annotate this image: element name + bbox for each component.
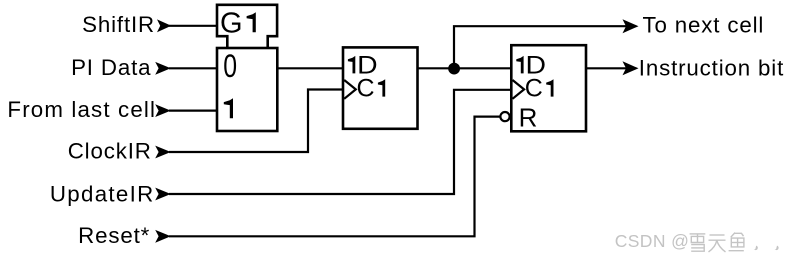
svg-text:From last cell: From last cell <box>7 97 156 122</box>
wire From last cell to mux input 1 <box>169 109 216 111</box>
label From last cell <box>7 97 156 122</box>
watermark glyph xue (snow) <box>690 234 706 251</box>
svg-text:R: R <box>519 102 538 132</box>
input arrow UpdateIR <box>155 188 171 201</box>
label PI Data <box>71 55 151 80</box>
wire ClockIR to FF1 clock C1 <box>169 90 342 153</box>
label To next cell <box>643 13 765 38</box>
svg-text:Instruction bit: Instruction bit <box>639 55 784 80</box>
label FF1 C1 <box>357 75 386 103</box>
input arrow Reset* <box>155 230 171 243</box>
flip-flop FF1 box <box>343 47 418 128</box>
svg-text:ClockIR: ClockIR <box>68 138 152 163</box>
svg-text:Reset*: Reset* <box>78 223 150 248</box>
svg-text:0: 0 <box>223 48 237 84</box>
label FF2 1D <box>516 51 546 79</box>
wire mux output to FF1 1D <box>277 67 342 69</box>
svg-text:To next cell: To next cell <box>643 13 765 38</box>
output arrow Instruction bit <box>623 61 639 75</box>
label FF1 1D <box>348 51 378 79</box>
input arrow ShiftIR <box>157 19 171 32</box>
svg-text:G: G <box>220 7 243 39</box>
wire ShiftIR to G1 <box>169 25 216 27</box>
watermark CSDN <box>615 231 690 251</box>
watermark glyph tian (sky) <box>709 235 726 252</box>
svg-text:C: C <box>525 75 543 103</box>
label UpdateIR <box>50 181 155 206</box>
label G1 <box>220 7 256 39</box>
flip-flop FF2 box <box>511 45 586 131</box>
wire junction up to next-cell line <box>454 26 630 68</box>
svg-text:ShiftIR: ShiftIR <box>82 12 155 37</box>
watermark comma 1 <box>754 246 758 251</box>
watermark comma 2 <box>774 246 778 251</box>
FF1 clock triangle <box>344 80 356 99</box>
label Reset* <box>78 223 150 248</box>
label Instruction bit <box>639 55 784 80</box>
label mux input 0 <box>223 48 237 84</box>
svg-text:C: C <box>357 75 375 103</box>
wire Reset* to FF2 reset R bubble <box>169 117 500 237</box>
FF2 reset bubble <box>500 112 509 121</box>
svg-text:CSDN @: CSDN @ <box>615 231 690 251</box>
input arrow ClockIR <box>155 146 171 159</box>
node junction dot <box>448 63 460 75</box>
FF2 clock triangle <box>513 80 525 99</box>
label mux input 1 <box>224 98 233 118</box>
wire FF1 output to FF2 1D <box>418 67 511 69</box>
watermark glyph yu (fish) <box>729 233 744 251</box>
label FF2 C1 <box>525 75 554 103</box>
wire PI Data to mux input 0 <box>169 67 216 69</box>
svg-text:UpdateIR: UpdateIR <box>50 181 155 206</box>
input arrow PI Data <box>155 62 171 75</box>
label ShiftIR <box>82 12 155 37</box>
output arrow To next cell <box>623 19 639 33</box>
multiplexer MUX box <box>217 48 277 131</box>
wire FF2 output Instruction bit <box>586 67 630 69</box>
input arrow From last cell <box>155 104 171 117</box>
wire UpdateIR to FF2 clock C1 <box>169 90 510 194</box>
svg-text:PI Data: PI Data <box>71 55 151 80</box>
label FF2 R <box>519 102 538 132</box>
label ClockIR <box>68 138 152 163</box>
mux select block G1 <box>217 5 277 48</box>
